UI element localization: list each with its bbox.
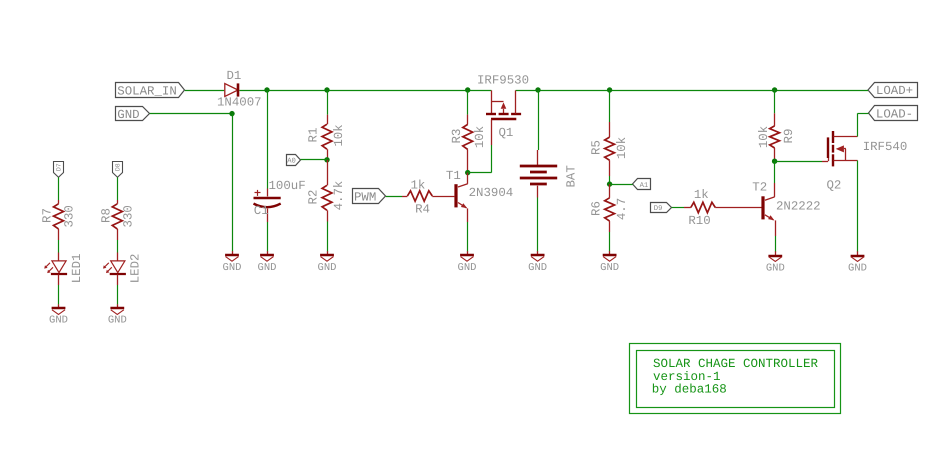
node R1-R2 A0 xyxy=(324,157,329,162)
resistor R3 xyxy=(450,115,487,173)
wire rail left xyxy=(185,90,225,92)
wire T2 collector xyxy=(774,161,776,183)
svg-text:T2: T2 xyxy=(752,180,767,194)
svg-text:R3: R3 xyxy=(450,129,464,144)
ground GND6 xyxy=(600,251,619,274)
wire R9 top xyxy=(774,90,776,113)
svg-text:D8: D8 xyxy=(115,163,122,171)
wire D9 xyxy=(672,207,685,209)
svg-text:LED2: LED2 xyxy=(129,254,143,284)
svg-text:Q2: Q2 xyxy=(827,179,842,193)
wire PWM xyxy=(386,196,402,198)
svg-text:330: 330 xyxy=(63,205,77,227)
svg-text:LED1: LED1 xyxy=(70,254,84,284)
node rail-BAT xyxy=(535,87,540,92)
resistor R10 xyxy=(684,188,762,228)
svg-text:T1: T1 xyxy=(446,169,461,183)
flag D7 xyxy=(54,162,64,178)
wire gnd-flag horiz xyxy=(150,113,232,115)
svg-text:LOAD-: LOAD- xyxy=(876,108,913,122)
svg-text:GND: GND xyxy=(258,262,277,274)
ground GND2 xyxy=(258,251,277,274)
flag GND (input) xyxy=(116,107,150,122)
svg-text:A0: A0 xyxy=(287,157,296,165)
svg-text:10k: 10k xyxy=(757,126,771,148)
wire BAT top xyxy=(538,90,540,150)
wire Q2 gate xyxy=(775,161,822,163)
battery BAT xyxy=(520,150,579,198)
svg-text:GND: GND xyxy=(108,315,127,327)
wire D8 lead xyxy=(117,177,119,200)
flag A1 xyxy=(633,179,651,190)
svg-text:IRF540: IRF540 xyxy=(863,140,908,154)
node R3-T1 xyxy=(465,170,470,175)
resistor R2 xyxy=(307,160,346,222)
svg-text:GND: GND xyxy=(318,262,337,274)
ground GND7 xyxy=(766,251,785,274)
svg-text:by deba168: by deba168 xyxy=(652,383,727,397)
svg-text:4.7: 4.7 xyxy=(615,198,629,220)
svg-text:GND: GND xyxy=(528,262,547,274)
node rail-R5 xyxy=(607,87,612,92)
ground GND9 xyxy=(49,304,68,326)
svg-text:10k: 10k xyxy=(332,124,346,146)
svg-text:GND: GND xyxy=(49,315,68,327)
wire R8-LED2 xyxy=(117,240,119,253)
svg-text:PWM: PWM xyxy=(354,190,376,204)
wire T2 emitter xyxy=(775,236,777,252)
wire rail right xyxy=(516,90,868,92)
led LED1 xyxy=(44,253,84,286)
wire Q1 gate xyxy=(468,145,492,173)
svg-text:R9: R9 xyxy=(782,129,796,144)
wire R3 top xyxy=(467,90,469,115)
wire R6 bottom xyxy=(609,232,611,251)
svg-text:1k: 1k xyxy=(410,178,425,192)
resistor R1 xyxy=(307,115,346,160)
ground GND3 xyxy=(318,251,337,274)
wire R2 bottom xyxy=(327,222,329,252)
flag LOAD+ xyxy=(868,83,918,99)
resistor R6 xyxy=(590,184,629,232)
svg-text:GND: GND xyxy=(600,262,619,274)
ground GND4 xyxy=(458,251,477,274)
flag D9 xyxy=(651,203,672,214)
flag D8 xyxy=(113,162,123,178)
svg-text:LOAD+: LOAD+ xyxy=(876,84,913,98)
wire R1 top xyxy=(327,90,329,115)
svg-text:R1: R1 xyxy=(307,128,321,143)
resistor R9 xyxy=(757,113,796,161)
resistor R5 xyxy=(590,122,629,176)
ground GND1 xyxy=(223,251,242,274)
svg-text:GND: GND xyxy=(766,262,785,274)
wire LED1-GND xyxy=(58,285,60,304)
svg-text:D7: D7 xyxy=(56,163,63,171)
diode D1 xyxy=(217,69,262,109)
node rail-C1 xyxy=(264,87,269,92)
svg-text:GND: GND xyxy=(848,262,867,274)
svg-text:R7: R7 xyxy=(41,208,55,223)
svg-text:R4: R4 xyxy=(415,203,430,217)
wire C1 bottom xyxy=(267,222,269,251)
svg-text:10k: 10k xyxy=(473,126,487,148)
svg-text:1N4007: 1N4007 xyxy=(217,95,262,109)
ground GND8 xyxy=(848,251,867,274)
wire Q2 source xyxy=(857,161,859,252)
svg-text:2N3904: 2N3904 xyxy=(469,186,514,200)
svg-text:BAT: BAT xyxy=(564,165,578,187)
mosfet Q1 IRF9530 xyxy=(477,73,529,145)
node rail-R9 xyxy=(772,87,777,92)
wire C1 top xyxy=(267,90,269,189)
ground GND10 xyxy=(108,304,127,326)
svg-text:C1: C1 xyxy=(254,204,269,218)
svg-text:R8: R8 xyxy=(99,208,113,223)
svg-text:10k: 10k xyxy=(615,137,629,159)
flag LOAD- xyxy=(869,106,918,122)
led LED2 xyxy=(103,253,143,286)
svg-text:GND: GND xyxy=(458,262,477,274)
wire BAT bottom xyxy=(537,198,539,252)
svg-text:IRF9530: IRF9530 xyxy=(477,73,529,87)
wire T1 emitter xyxy=(467,222,469,251)
svg-text:R5: R5 xyxy=(590,140,604,155)
flag SOLAR_IN xyxy=(116,83,185,99)
svg-text:R2: R2 xyxy=(307,190,321,205)
svg-text:R10: R10 xyxy=(688,214,710,228)
svg-text:SOLAR_IN: SOLAR_IN xyxy=(117,84,177,98)
wire rail mid xyxy=(240,90,492,92)
svg-text:R6: R6 xyxy=(590,201,604,216)
svg-text:Q1: Q1 xyxy=(499,126,514,140)
node gnd corner xyxy=(229,111,234,116)
svg-text:D9: D9 xyxy=(654,205,663,213)
svg-text:GND: GND xyxy=(223,262,242,274)
svg-text:2N2222: 2N2222 xyxy=(776,200,821,214)
wire A0 xyxy=(301,159,328,161)
wire R5 top xyxy=(609,90,611,122)
svg-text:4.7k: 4.7k xyxy=(332,181,346,211)
svg-text:D1: D1 xyxy=(226,69,241,83)
svg-text:1k: 1k xyxy=(694,188,709,202)
capacitor C1 xyxy=(254,179,306,222)
resistor R7 xyxy=(41,200,77,240)
wire R5 bot xyxy=(609,176,611,184)
title frame xyxy=(630,344,841,414)
wire R7-LED1 xyxy=(58,240,60,253)
resistor R4 xyxy=(402,178,455,216)
node rail-R1 xyxy=(324,87,329,92)
node R9-T2 xyxy=(772,159,777,164)
wire Q2 drain xyxy=(858,113,869,136)
flag A0 xyxy=(287,155,301,166)
mosfet Q2 IRF540 xyxy=(822,131,907,193)
wire D7 lead xyxy=(58,177,60,200)
wire A1 xyxy=(610,184,633,186)
wire gnd-flag vert xyxy=(232,114,234,252)
flag PWM xyxy=(353,189,386,205)
svg-text:SOLAR CHAGE CONTROLLER: SOLAR CHAGE CONTROLLER xyxy=(653,357,819,371)
svg-text:330: 330 xyxy=(122,205,136,227)
transistor T2 2N2222 xyxy=(752,180,820,236)
node R5-R6 A1 xyxy=(607,181,612,186)
transistor T1 2N3904 xyxy=(446,169,513,222)
svg-text:A1: A1 xyxy=(640,182,649,190)
ground GND5 xyxy=(528,251,547,274)
wire LED2-GND xyxy=(117,285,119,304)
resistor R8 xyxy=(99,200,135,240)
svg-text:100uF: 100uF xyxy=(269,179,306,193)
node rail-R3 xyxy=(465,87,470,92)
svg-text:GND: GND xyxy=(117,108,139,122)
